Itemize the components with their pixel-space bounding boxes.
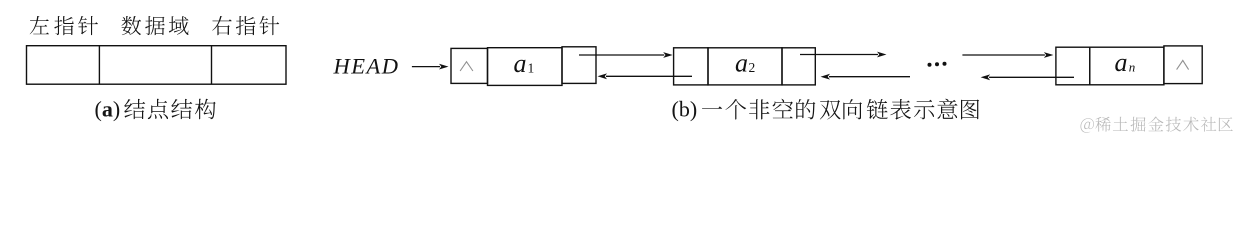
node1 data cell [488, 48, 563, 86]
node-n data cell [1090, 47, 1164, 85]
node1 null mark (caret) [460, 62, 473, 71]
caption (b) 一个非空的双向链表示意图 [702, 99, 979, 120]
node1 left-pointer cell [451, 48, 488, 83]
arrow node-n prev toward ellipsis [981, 74, 1074, 80]
arrow ellipsis prev to node2 [821, 74, 911, 80]
label left-pointer 左指针 [30, 16, 98, 35]
svg-text:HEAD: HEAD [333, 54, 400, 79]
arrow node2 prev to node1 [598, 73, 693, 79]
node-structure box divider 2 [211, 46, 213, 84]
ellipsis dots [928, 62, 947, 67]
label right-pointer 右指针 [212, 16, 279, 35]
node-n right-pointer cell [1164, 46, 1202, 84]
label data-field 数据域 [122, 16, 189, 35]
node2 right-pointer cell [782, 48, 815, 85]
svg-text:(b): (b) [672, 97, 698, 122]
arrow ellipsis next to node-n [962, 52, 1053, 58]
node2 data cell [708, 48, 782, 85]
node2 left-pointer cell [674, 48, 708, 85]
node1 right-pointer cell [562, 47, 596, 84]
node-structure box outline [27, 46, 287, 84]
node-n left-pointer cell [1056, 47, 1090, 85]
caption (a) 结点结构 [124, 99, 215, 120]
node-structure box divider 1 [98, 46, 100, 84]
arrow node1 next to node2 [579, 52, 673, 58]
watermark @ [1081, 118, 1094, 133]
svg-text:(a): (a) [95, 97, 121, 122]
node-n null mark (caret) [1177, 60, 1189, 69]
watermark 稀土掘金技术社区 [1095, 117, 1233, 132]
arrow node2 next toward ellipsis [800, 52, 887, 58]
arrow HEAD to node1 [412, 64, 449, 70]
